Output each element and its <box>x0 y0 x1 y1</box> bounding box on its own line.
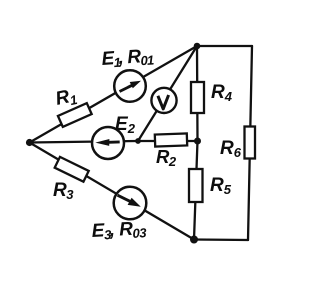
resistor R2 <box>155 133 187 146</box>
svg-text:E3, R03: E3, R03 <box>91 218 148 243</box>
wire A to D (bottom diagonal) <box>30 143 195 240</box>
wire B to top-right corner <box>197 45 252 47</box>
source E1 <box>114 70 146 102</box>
resistor R3 <box>55 157 89 182</box>
svg-text:R3: R3 <box>53 180 74 202</box>
resistor R4 <box>191 82 204 113</box>
svg-text:E2: E2 <box>115 114 136 136</box>
resistor R6 <box>245 127 256 159</box>
node C <box>194 138 201 145</box>
wire A to B (top-left diagonal) <box>30 46 198 143</box>
source E3 <box>114 187 147 220</box>
svg-text:R4: R4 <box>211 82 233 104</box>
wire C to D (vertical through R5) <box>194 141 198 240</box>
svg-text:R2: R2 <box>156 146 177 169</box>
resistor R1 <box>58 103 92 127</box>
svg-text:E1, R01: E1, R01 <box>101 45 155 71</box>
wire D to bottom-right corner <box>194 238 248 241</box>
resistor R5 <box>189 169 203 202</box>
node D <box>190 236 198 244</box>
node A <box>26 139 33 146</box>
svg-text:R5: R5 <box>210 175 232 197</box>
node B <box>194 43 201 50</box>
svg-text:R1: R1 <box>54 85 79 111</box>
svg-text:R6: R6 <box>220 138 242 160</box>
source E2 <box>92 127 124 159</box>
wire B to C (vertical through R4) <box>196 46 199 141</box>
node N2 <box>135 138 141 144</box>
voltmeter V <box>151 88 176 113</box>
wire A to N2 (middle branch) <box>30 141 139 143</box>
wire B to N2 (voltmeter branch) <box>138 46 197 141</box>
wire right rail through R6 <box>248 46 252 240</box>
wire N2 to C through R2 <box>138 140 198 142</box>
